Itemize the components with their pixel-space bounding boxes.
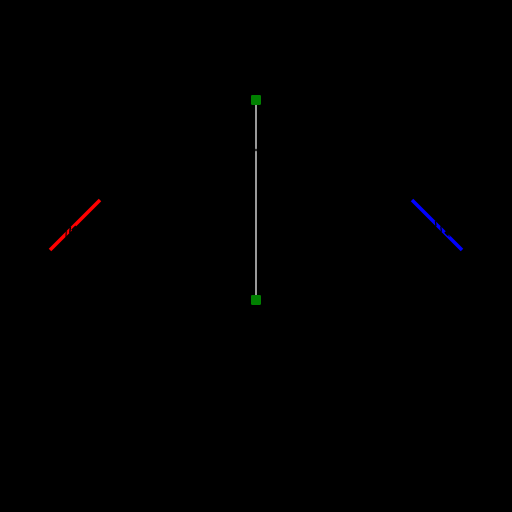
node B bottom green square marker [251, 295, 261, 305]
label l/2 over blue segment (black glyph strokes cutting the line) [435, 221, 451, 237]
label on gray rod (black glyph cutout near quarter point) [252, 149, 260, 152]
red segment left [50, 200, 100, 250]
node A top green square marker [251, 95, 261, 105]
blue segment right [412, 200, 462, 250]
label l/2 over red segment (black glyph strokes cutting the line) [65, 225, 76, 236]
wire gray rod between nodes [255, 100, 257, 300]
